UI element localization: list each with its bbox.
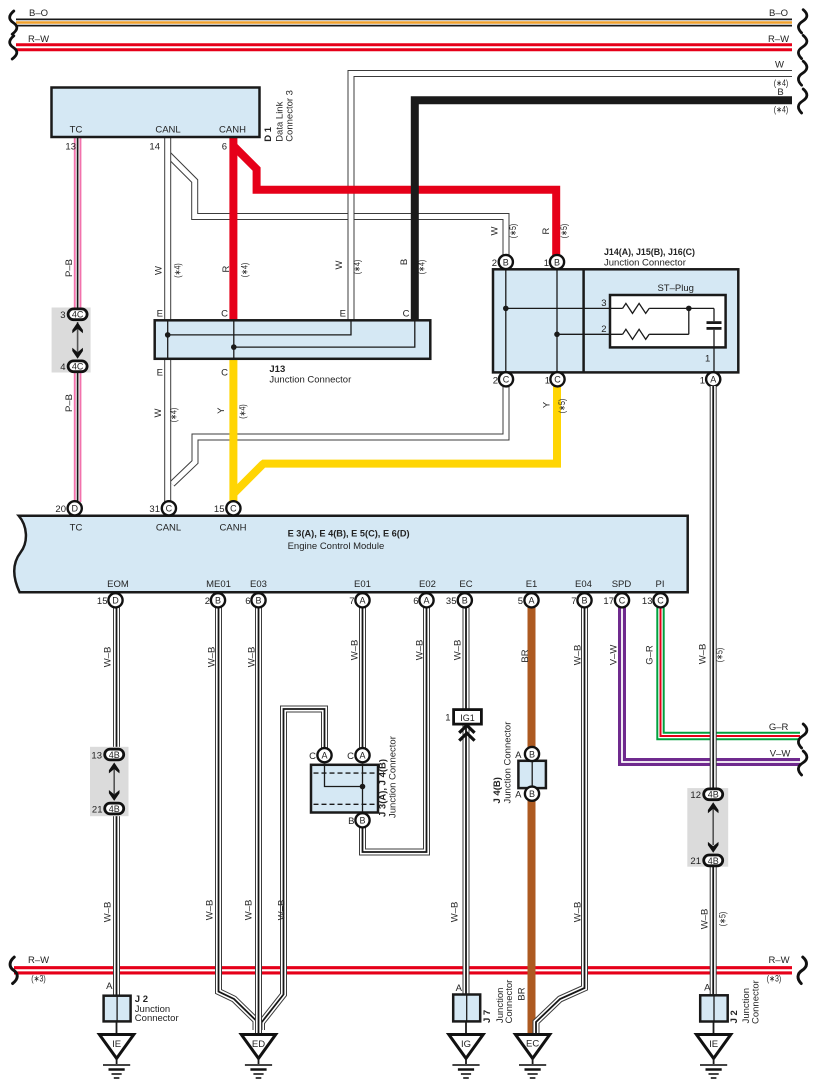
brace B-O right [798, 10, 806, 33]
svg-text:1: 1 [445, 713, 450, 724]
wire W-B from E04 to EC ground [536, 608, 585, 1035]
svg-text:(∗5): (∗5) [718, 912, 728, 927]
svg-text:EC: EC [526, 1039, 539, 1050]
svg-text:4B: 4B [708, 790, 719, 800]
svg-text:W–B: W–B [244, 900, 255, 921]
wire W-B (*5) from J14 1(A) to J2 ground IE right [698, 386, 728, 996]
wire W-B from E01 to J3 pin C(A) right [350, 608, 363, 750]
svg-text:Connector: Connector [751, 980, 762, 1024]
svg-text:A: A [515, 790, 522, 801]
svg-text:A: A [704, 983, 711, 994]
svg-text:12: 12 [690, 790, 701, 801]
svg-text:W–B: W–B [573, 902, 584, 923]
svg-text:C: C [403, 309, 410, 320]
brace R-W bottom right [798, 957, 806, 983]
svg-text:A: A [359, 751, 365, 761]
svg-text:Connector: Connector [135, 1013, 179, 1024]
svg-text:Connector 3: Connector 3 [285, 90, 296, 142]
svg-text:A: A [423, 596, 429, 606]
svg-text:2: 2 [205, 596, 210, 607]
svg-text:R–W: R–W [768, 955, 789, 966]
svg-text:B: B [529, 749, 535, 759]
capacitor in ST-Plug [705, 308, 722, 372]
svg-text:(∗3): (∗3) [31, 974, 46, 984]
svg-text:D 1: D 1 [263, 126, 274, 142]
svg-text:W: W [154, 266, 165, 275]
svg-text:A: A [321, 751, 327, 761]
svg-text:B: B [359, 816, 365, 826]
svg-text:R–W: R–W [28, 34, 49, 45]
svg-text:2: 2 [492, 258, 497, 269]
svg-text:R: R [221, 265, 232, 272]
svg-text:E: E [340, 309, 346, 320]
wire BR from E1 to EC ground [517, 608, 532, 1035]
svg-text:R–W: R–W [28, 955, 49, 966]
junction connector J4(B) box on E1 wire [492, 722, 546, 804]
svg-text:C: C [619, 596, 626, 606]
svg-text:CANL: CANL [155, 125, 180, 136]
svg-text:1: 1 [700, 376, 705, 387]
svg-text:G–R: G–R [645, 645, 656, 665]
svg-text:B: B [255, 596, 261, 606]
wire W-B from ME01 to ED ground [205, 608, 257, 1031]
svg-text:TC: TC [70, 523, 83, 534]
svg-text:C: C [554, 375, 561, 385]
svg-text:13: 13 [65, 142, 76, 153]
svg-text:(∗4): (∗4) [169, 408, 179, 423]
svg-text:4B: 4B [708, 856, 719, 866]
svg-text:P–B: P–B [64, 394, 75, 412]
junction connector J14(A) J15(B) J16(C) box [493, 247, 738, 372]
svg-text:BR: BR [517, 987, 528, 1000]
svg-text:W–B: W–B [700, 909, 711, 930]
svg-text:(∗5): (∗5) [508, 224, 518, 239]
ECM bottom terminal names [107, 579, 664, 590]
junction connector J2 left box [104, 981, 179, 1024]
svg-text:W: W [775, 60, 784, 71]
svg-text:P–B: P–B [64, 259, 75, 277]
junction connector J3(A) J4(B) box [309, 736, 398, 827]
junction connector J2 right box [700, 980, 761, 1024]
wire R CANH: DLC3 pin 6 down to J13 terminal C, branch right to J14 pin 1(B) [221, 137, 569, 320]
svg-text:J13: J13 [269, 364, 285, 375]
svg-text:C: C [657, 596, 664, 606]
svg-text:W–B: W–B [103, 647, 114, 668]
svg-text:(∗5): (∗5) [557, 399, 567, 414]
svg-text:IE: IE [112, 1039, 121, 1050]
svg-text:(∗4): (∗4) [774, 105, 789, 115]
svg-text:(∗4): (∗4) [352, 260, 362, 275]
svg-text:Engine Control Module: Engine Control Module [288, 541, 385, 552]
connector 4B pass-through on EOM wire [90, 747, 129, 816]
svg-text:Junction Connector: Junction Connector [503, 722, 514, 804]
svg-text:5: 5 [518, 596, 523, 607]
wire CANL branch white: DLC3 CANL to J14 pin 2(B) [168, 154, 518, 256]
svg-text:4C: 4C [72, 310, 84, 320]
svg-text:14: 14 [149, 142, 160, 153]
svg-text:B–O: B–O [29, 8, 48, 19]
svg-text:E1: E1 [526, 579, 538, 590]
svg-text:A: A [710, 375, 716, 385]
svg-text:Junction Connector: Junction Connector [269, 375, 351, 386]
svg-text:1: 1 [705, 354, 710, 365]
svg-text:TC: TC [70, 125, 83, 136]
svg-text:1: 1 [544, 258, 549, 269]
svg-text:W–B: W–B [350, 640, 361, 661]
ECM top pin 20(D) TC [55, 501, 81, 515]
connector D1 Data Link Connector 3 box [52, 88, 296, 153]
svg-text:6: 6 [222, 142, 227, 153]
svg-text:4B: 4B [109, 804, 120, 814]
svg-text:B: B [503, 257, 509, 267]
connector 4C pass-through on P-B wire [52, 308, 91, 374]
ECM top pin 15(C) CANH [214, 501, 241, 515]
svg-text:(∗3): (∗3) [767, 974, 782, 984]
wire W-B from EOM to J2 ground IE [103, 608, 117, 996]
junction connector J13 box [155, 309, 431, 386]
ground IE right [696, 1022, 730, 1079]
ST-Plug box [610, 283, 726, 347]
svg-text:A: A [359, 596, 365, 606]
svg-text:4B: 4B [109, 750, 120, 760]
svg-text:SPD: SPD [612, 579, 632, 590]
wire W-B from J3 pin C(A) left to ED ground [262, 709, 325, 1030]
svg-text:W: W [490, 226, 501, 235]
svg-text:IE: IE [709, 1039, 718, 1050]
svg-text:W: W [334, 260, 345, 269]
svg-text:3: 3 [60, 310, 65, 321]
svg-text:B: B [348, 816, 354, 827]
junction connector J7 box [453, 980, 515, 1024]
svg-text:A: A [106, 981, 113, 992]
svg-text:J14(A), J15(B), J16(C): J14(A), J15(B), J16(C) [604, 247, 695, 258]
svg-text:ME01: ME01 [206, 579, 231, 590]
svg-text:E01: E01 [354, 579, 371, 590]
wire W-B from E03 to ED ground [244, 608, 259, 1035]
svg-text:W–B: W–B [207, 647, 218, 668]
svg-text:20: 20 [55, 504, 66, 515]
ECM bottom pin circles [97, 593, 668, 607]
svg-text:B: B [462, 596, 468, 606]
svg-text:A: A [515, 750, 522, 761]
svg-text:V–W: V–W [770, 749, 791, 760]
svg-text:7: 7 [349, 596, 354, 607]
svg-text:4: 4 [60, 362, 65, 373]
svg-text:B: B [529, 789, 535, 799]
svg-text:C: C [503, 375, 510, 385]
wire V-W from SPD to right edge [609, 608, 801, 763]
svg-text:G–R: G–R [769, 722, 789, 733]
svg-text:13: 13 [642, 596, 653, 607]
svg-text:D: D [71, 504, 78, 514]
svg-text:4C: 4C [72, 362, 84, 372]
svg-text:CANH: CANH [220, 523, 247, 534]
svg-text:W–B: W–B [205, 900, 216, 921]
svg-text:IG: IG [461, 1039, 471, 1050]
svg-text:ED: ED [252, 1039, 265, 1050]
svg-text:A: A [456, 983, 463, 994]
svg-text:W–B: W–B [450, 902, 461, 923]
svg-text:W–B: W–B [277, 900, 288, 921]
wire W-B from E02 to J3 pin B(B) [363, 608, 427, 853]
svg-text:Junction Connector: Junction Connector [388, 736, 399, 818]
wire CANL W (*4): DLC3 pin 14 down to ECM pin 31 [153, 137, 183, 502]
svg-text:W–B: W–B [573, 645, 584, 666]
svg-text:B: B [399, 259, 410, 265]
svg-text:R: R [541, 227, 552, 234]
svg-text:21: 21 [92, 805, 103, 816]
svg-text:B: B [215, 596, 221, 606]
svg-text:ST–Plug: ST–Plug [657, 283, 693, 294]
svg-text:C: C [221, 368, 228, 379]
svg-text:13: 13 [91, 751, 102, 762]
wire R-W bus top [16, 34, 792, 47]
svg-text:(∗4): (∗4) [173, 263, 183, 278]
svg-text:35: 35 [446, 596, 457, 607]
svg-text:J 2: J 2 [729, 1010, 740, 1023]
svg-text:J 4(B): J 4(B) [492, 777, 503, 803]
svg-text:A: A [528, 596, 534, 606]
J14 pins top 2(B) 1(B) [492, 255, 713, 373]
svg-text:(∗5): (∗5) [559, 224, 569, 239]
svg-text:D: D [112, 596, 119, 606]
brace V-W right [798, 751, 806, 775]
wire W (*5) from J14 2(C) joining CANL wire [172, 384, 506, 484]
ground EC [515, 1035, 549, 1079]
svg-text:J 7: J 7 [482, 1010, 493, 1023]
svg-text:W–B: W–B [247, 647, 258, 668]
svg-text:B: B [581, 596, 587, 606]
svg-text:Y: Y [542, 401, 553, 408]
svg-text:(∗4): (∗4) [240, 263, 250, 278]
J14 pins bottom 2(C) 1(C) 1(A) [493, 372, 721, 386]
node line 2 with resistor [554, 308, 689, 339]
wire W (*4) bus from right edge down to J13 terminal E [334, 60, 792, 321]
wire G-R from PI to right edge [645, 608, 801, 737]
brace B-O left [10, 11, 17, 34]
svg-text:17: 17 [603, 596, 614, 607]
svg-text:(∗4): (∗4) [417, 260, 427, 275]
svg-text:Y: Y [216, 407, 227, 414]
svg-text:E 3(A), E 4(B), E 5(C), E 6(D): E 3(A), E 4(B), E 5(C), E 6(D) [288, 529, 410, 540]
svg-text:31: 31 [149, 504, 160, 515]
svg-text:C: C [166, 504, 173, 514]
svg-text:Connector: Connector [504, 980, 515, 1024]
svg-text:R–W: R–W [768, 34, 789, 45]
wire W-B from EC through IG1 to J7 ground IG [450, 608, 467, 996]
svg-text:7: 7 [571, 596, 576, 607]
svg-text:C: C [347, 751, 354, 762]
wire R-W bus bottom [14, 955, 792, 984]
svg-text:15: 15 [214, 504, 225, 515]
svg-text:2: 2 [493, 376, 498, 387]
svg-text:E03: E03 [250, 579, 267, 590]
brace R-W right [798, 35, 806, 58]
svg-text:(∗4): (∗4) [237, 404, 247, 419]
wire P-B: DLC3 pin 13 down to ECM pin 20 [64, 137, 78, 502]
IG1 connector box on EC wire [445, 710, 481, 741]
brace W right [798, 61, 806, 85]
svg-text:EOM: EOM [107, 579, 129, 590]
svg-text:E02: E02 [419, 579, 436, 590]
node line 3 with resistor [503, 298, 714, 313]
svg-text:B: B [777, 87, 783, 98]
svg-text:W–B: W–B [698, 644, 709, 665]
ECM box E3(A) E4(B) E5(C) E6(D) [14, 516, 688, 593]
svg-text:2: 2 [601, 324, 606, 335]
connector 4B pass-through on W-B (*5) wire [687, 788, 728, 867]
brace R-W left [10, 36, 17, 59]
ground IE left [99, 1021, 133, 1078]
svg-text:CANL: CANL [156, 523, 181, 534]
wire B-O bus top [16, 8, 792, 23]
brace R-W bottom left [10, 957, 17, 983]
wire Y: J13 terminal C down to ECM pin 15, branch from J14 1(C) [216, 359, 567, 502]
brace G-R right [798, 724, 806, 748]
svg-text:1: 1 [545, 376, 550, 387]
wire B (*4) bus from right edge down to J13 terminal C right [399, 87, 792, 320]
svg-text:6: 6 [245, 596, 250, 607]
svg-text:B: B [554, 257, 560, 267]
svg-text:21: 21 [690, 856, 701, 867]
ECM top pin 31(C) CANL [149, 501, 176, 515]
svg-text:EC: EC [459, 579, 472, 590]
brace B right [798, 89, 806, 113]
svg-text:PI: PI [656, 579, 665, 590]
svg-text:W–B: W–B [103, 902, 114, 923]
svg-text:C: C [221, 309, 228, 320]
ground ED [241, 1035, 275, 1079]
svg-text:C: C [230, 504, 237, 514]
svg-text:E: E [157, 368, 163, 379]
svg-text:3: 3 [601, 298, 606, 309]
svg-text:E: E [157, 309, 163, 320]
svg-text:C: C [309, 751, 316, 762]
svg-text:E04: E04 [575, 579, 592, 590]
svg-text:W: W [153, 408, 164, 417]
svg-text:CANH: CANH [219, 125, 246, 136]
svg-text:V–W: V–W [609, 645, 620, 666]
svg-text:15: 15 [97, 596, 108, 607]
svg-text:W–B: W–B [453, 640, 464, 661]
svg-text:Junction Connector: Junction Connector [604, 258, 686, 269]
svg-text:BR: BR [520, 649, 531, 662]
ground IG [449, 1021, 483, 1078]
svg-text:W–B: W–B [415, 640, 426, 661]
svg-text:IG1: IG1 [460, 713, 475, 723]
svg-text:(∗5): (∗5) [715, 648, 725, 663]
svg-text:6: 6 [413, 596, 418, 607]
svg-text:B–O: B–O [769, 8, 788, 19]
